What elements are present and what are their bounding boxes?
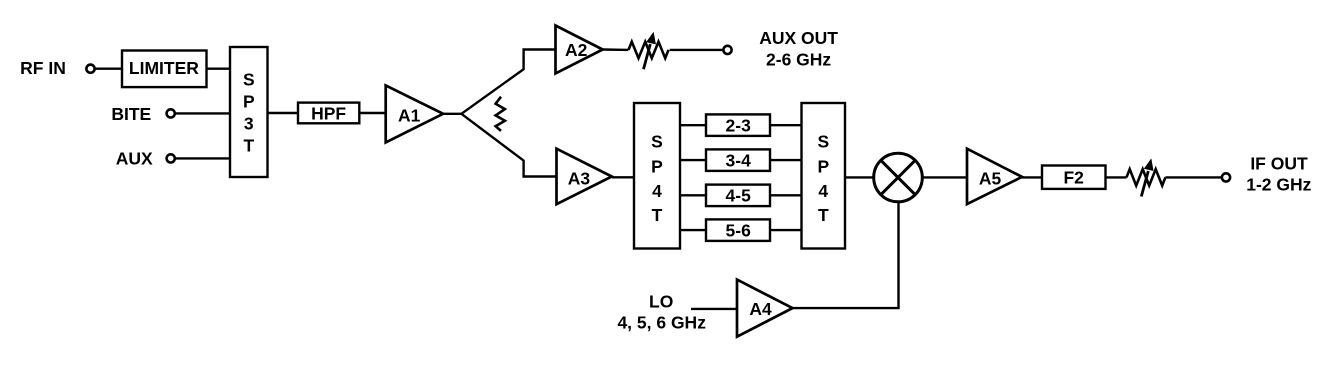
wire A1 to splitter node — [443, 113, 461, 115]
svg-text:F2: F2 — [1063, 168, 1084, 188]
svg-text:4: 4 — [652, 181, 662, 201]
wire HPF to A1 — [359, 112, 385, 114]
svg-text:LIMITER: LIMITER — [129, 58, 199, 78]
filter 2-3 box — [706, 114, 770, 135]
amplifier A2 — [556, 26, 603, 74]
svg-text:T: T — [243, 136, 254, 156]
svg-text:4: 4 — [818, 181, 828, 201]
filter HPF box — [298, 103, 359, 124]
svg-text:S: S — [651, 132, 663, 152]
attenuator AUX zigzag — [629, 42, 669, 59]
svg-text:P: P — [651, 156, 663, 176]
attenuator AUX arrow — [644, 44, 651, 69]
switch SP4T output label — [817, 132, 829, 226]
wire SP4T to filter 5-6 — [680, 229, 706, 231]
amplifier A3 — [557, 149, 612, 205]
wire splitter lower branch — [461, 114, 556, 177]
wire A4 to mixer corner — [793, 203, 899, 308]
wire splitter upper branch — [461, 50, 555, 114]
terminal BITE — [167, 109, 175, 117]
terminal IF OUT — [1222, 173, 1230, 181]
svg-text:A3: A3 — [568, 168, 591, 188]
wire LO to A4 — [691, 308, 737, 310]
wire filter 3-4 to SP4T out — [770, 159, 802, 161]
svg-text:A2: A2 — [565, 40, 588, 60]
svg-text:2-6 GHz: 2-6 GHz — [766, 50, 831, 70]
svg-text:5-6: 5-6 — [726, 221, 752, 241]
svg-text:S: S — [243, 69, 255, 89]
wire RF IN to limiter — [95, 67, 123, 69]
svg-text:1-2 GHz: 1-2 GHz — [1246, 175, 1311, 195]
svg-text:3: 3 — [244, 114, 254, 134]
mixer M1 X — [881, 160, 915, 194]
svg-text:T: T — [818, 205, 829, 225]
wire AUX to SP3T — [175, 157, 230, 159]
filter 5-6 box — [706, 219, 770, 241]
mixer M1 circle — [874, 153, 923, 202]
wire SP4T to filter 2-3 — [680, 124, 706, 126]
svg-text:4-5: 4-5 — [726, 186, 752, 206]
svg-text:RF IN: RF IN — [20, 58, 66, 78]
svg-text:A5: A5 — [979, 169, 1002, 189]
switch SP3T label — [243, 69, 255, 155]
resistor splitter zigzag — [496, 97, 505, 131]
terminal AUX — [167, 154, 175, 162]
svg-text:4, 5, 6 GHz: 4, 5, 6 GHz — [617, 313, 706, 333]
svg-text:IF OUT: IF OUT — [1250, 154, 1308, 174]
wire attenuator to IF OUT — [1165, 176, 1222, 178]
wire SP4T to filter 3-4 — [680, 159, 706, 161]
svg-text:3-4: 3-4 — [726, 151, 752, 171]
svg-text:LO: LO — [649, 291, 673, 311]
attenuator IF arrow — [1141, 171, 1148, 197]
wire A2 to attenuator — [603, 48, 629, 51]
filter 4-5 box — [706, 185, 770, 207]
wire F2 to attenuator — [1106, 176, 1127, 178]
svg-text:A4: A4 — [749, 299, 772, 319]
switch SP4T input label — [651, 132, 663, 226]
filter F2 box — [1042, 166, 1106, 189]
svg-text:HPF: HPF — [311, 103, 346, 123]
wire filter 5-6 to SP4T out — [770, 229, 802, 231]
wire A3 to SP4T input — [612, 176, 634, 178]
filter 3-4 box — [706, 149, 770, 171]
wire attenuator to AUX OUT — [670, 49, 724, 51]
svg-text:BITE: BITE — [111, 104, 151, 124]
wire BITE to SP3T — [175, 112, 230, 114]
svg-text:AUX OUT: AUX OUT — [759, 28, 838, 48]
wire mixer to A5 — [922, 176, 967, 178]
svg-text:P: P — [817, 156, 829, 176]
amplifier A4 — [737, 280, 793, 337]
svg-text:A1: A1 — [398, 106, 421, 126]
wire SP3T to HPF — [268, 112, 299, 114]
switch SP4T input — [634, 103, 680, 249]
wire filter 4-5 to SP4T out — [770, 194, 802, 196]
limiter box — [122, 51, 207, 88]
wire A5 to F2 — [1022, 176, 1042, 178]
svg-text:2-3: 2-3 — [726, 116, 752, 136]
switch SP3T — [230, 47, 268, 177]
amplifier A5 — [967, 149, 1022, 204]
svg-text:T: T — [652, 205, 663, 225]
amplifier A1 — [386, 85, 443, 142]
terminal AUX OUT — [723, 46, 731, 54]
terminal RF IN — [86, 65, 94, 73]
svg-text:AUX: AUX — [116, 149, 153, 169]
attenuator IF zigzag — [1127, 169, 1166, 185]
wire SP4T to mixer — [845, 176, 874, 178]
wire limiter to SP3T — [207, 67, 231, 69]
svg-text:P: P — [243, 92, 255, 112]
wire filter 2-3 to SP4T out — [770, 124, 802, 126]
wire SP4T to filter 4-5 — [680, 194, 706, 196]
svg-text:S: S — [817, 132, 829, 152]
switch SP4T output — [802, 103, 846, 249]
